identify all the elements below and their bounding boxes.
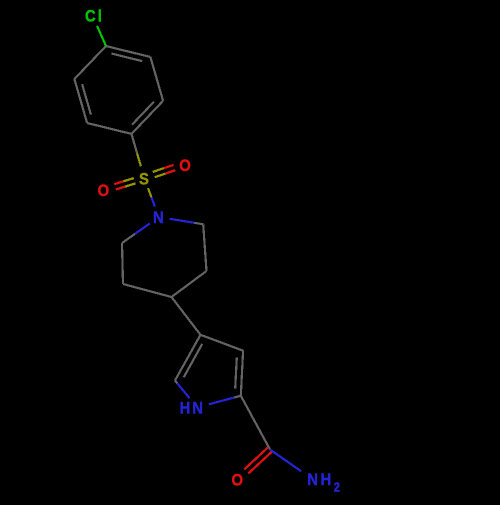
benzene ring bond C5=C6 (aromatic double) — [74, 79, 87, 123]
svg-text:O: O — [179, 157, 193, 175]
piperidine bond C4-C5 — [123, 284, 172, 297]
svg-text:Cl: Cl — [85, 8, 104, 26]
bond Cl-C1 (terminal: fully green) — [97, 26, 106, 46]
piperidine bond N1-C2 — [170, 219, 195, 223]
piperidine bond C2-C3 — [203, 224, 206, 271]
svg-text:HN: HN — [180, 400, 205, 418]
bond C4-S — [132, 134, 138, 154]
S=O left double bond — [124, 178, 134, 181]
svg-text:O: O — [231, 472, 245, 490]
benzene ring bond C2-C3 — [150, 57, 163, 101]
S=O right double bond — [155, 174, 166, 178]
svg-text:O: O — [98, 183, 112, 201]
benzene ring bond C6-C1 — [74, 46, 106, 79]
benzene ring bond C1=C2 (aromatic double) — [106, 46, 150, 57]
bond S-N — [148, 188, 152, 197]
bond piperidine C4 - pyrrole C4 — [172, 297, 201, 335]
benzene ring bond C4-C5 — [87, 123, 131, 134]
pyrrole bond C3=C2 (double) — [241, 351, 243, 396]
piperidine bond C6-N1 — [122, 234, 135, 243]
piperidine bond C5-C6 — [122, 243, 123, 284]
amide C=O double bond (fully red) — [244, 447, 268, 469]
benzene ring bond C3=C4 (aromatic double) — [132, 101, 164, 134]
pyrrole bond N1-C5 — [177, 383, 189, 398]
bond C2y - amide C — [241, 396, 270, 450]
svg-text:S: S — [139, 171, 151, 189]
bond amide C-NH2 (fully blue) — [270, 450, 301, 472]
svg-text:N: N — [153, 210, 166, 228]
piperidine bond C3-C4 — [172, 271, 207, 297]
pyrrole bond C4-C3 — [201, 335, 244, 351]
pyrrole bond C5=C4 (double) — [175, 335, 201, 381]
pyrrole bond C2-N1 — [234, 396, 241, 398]
